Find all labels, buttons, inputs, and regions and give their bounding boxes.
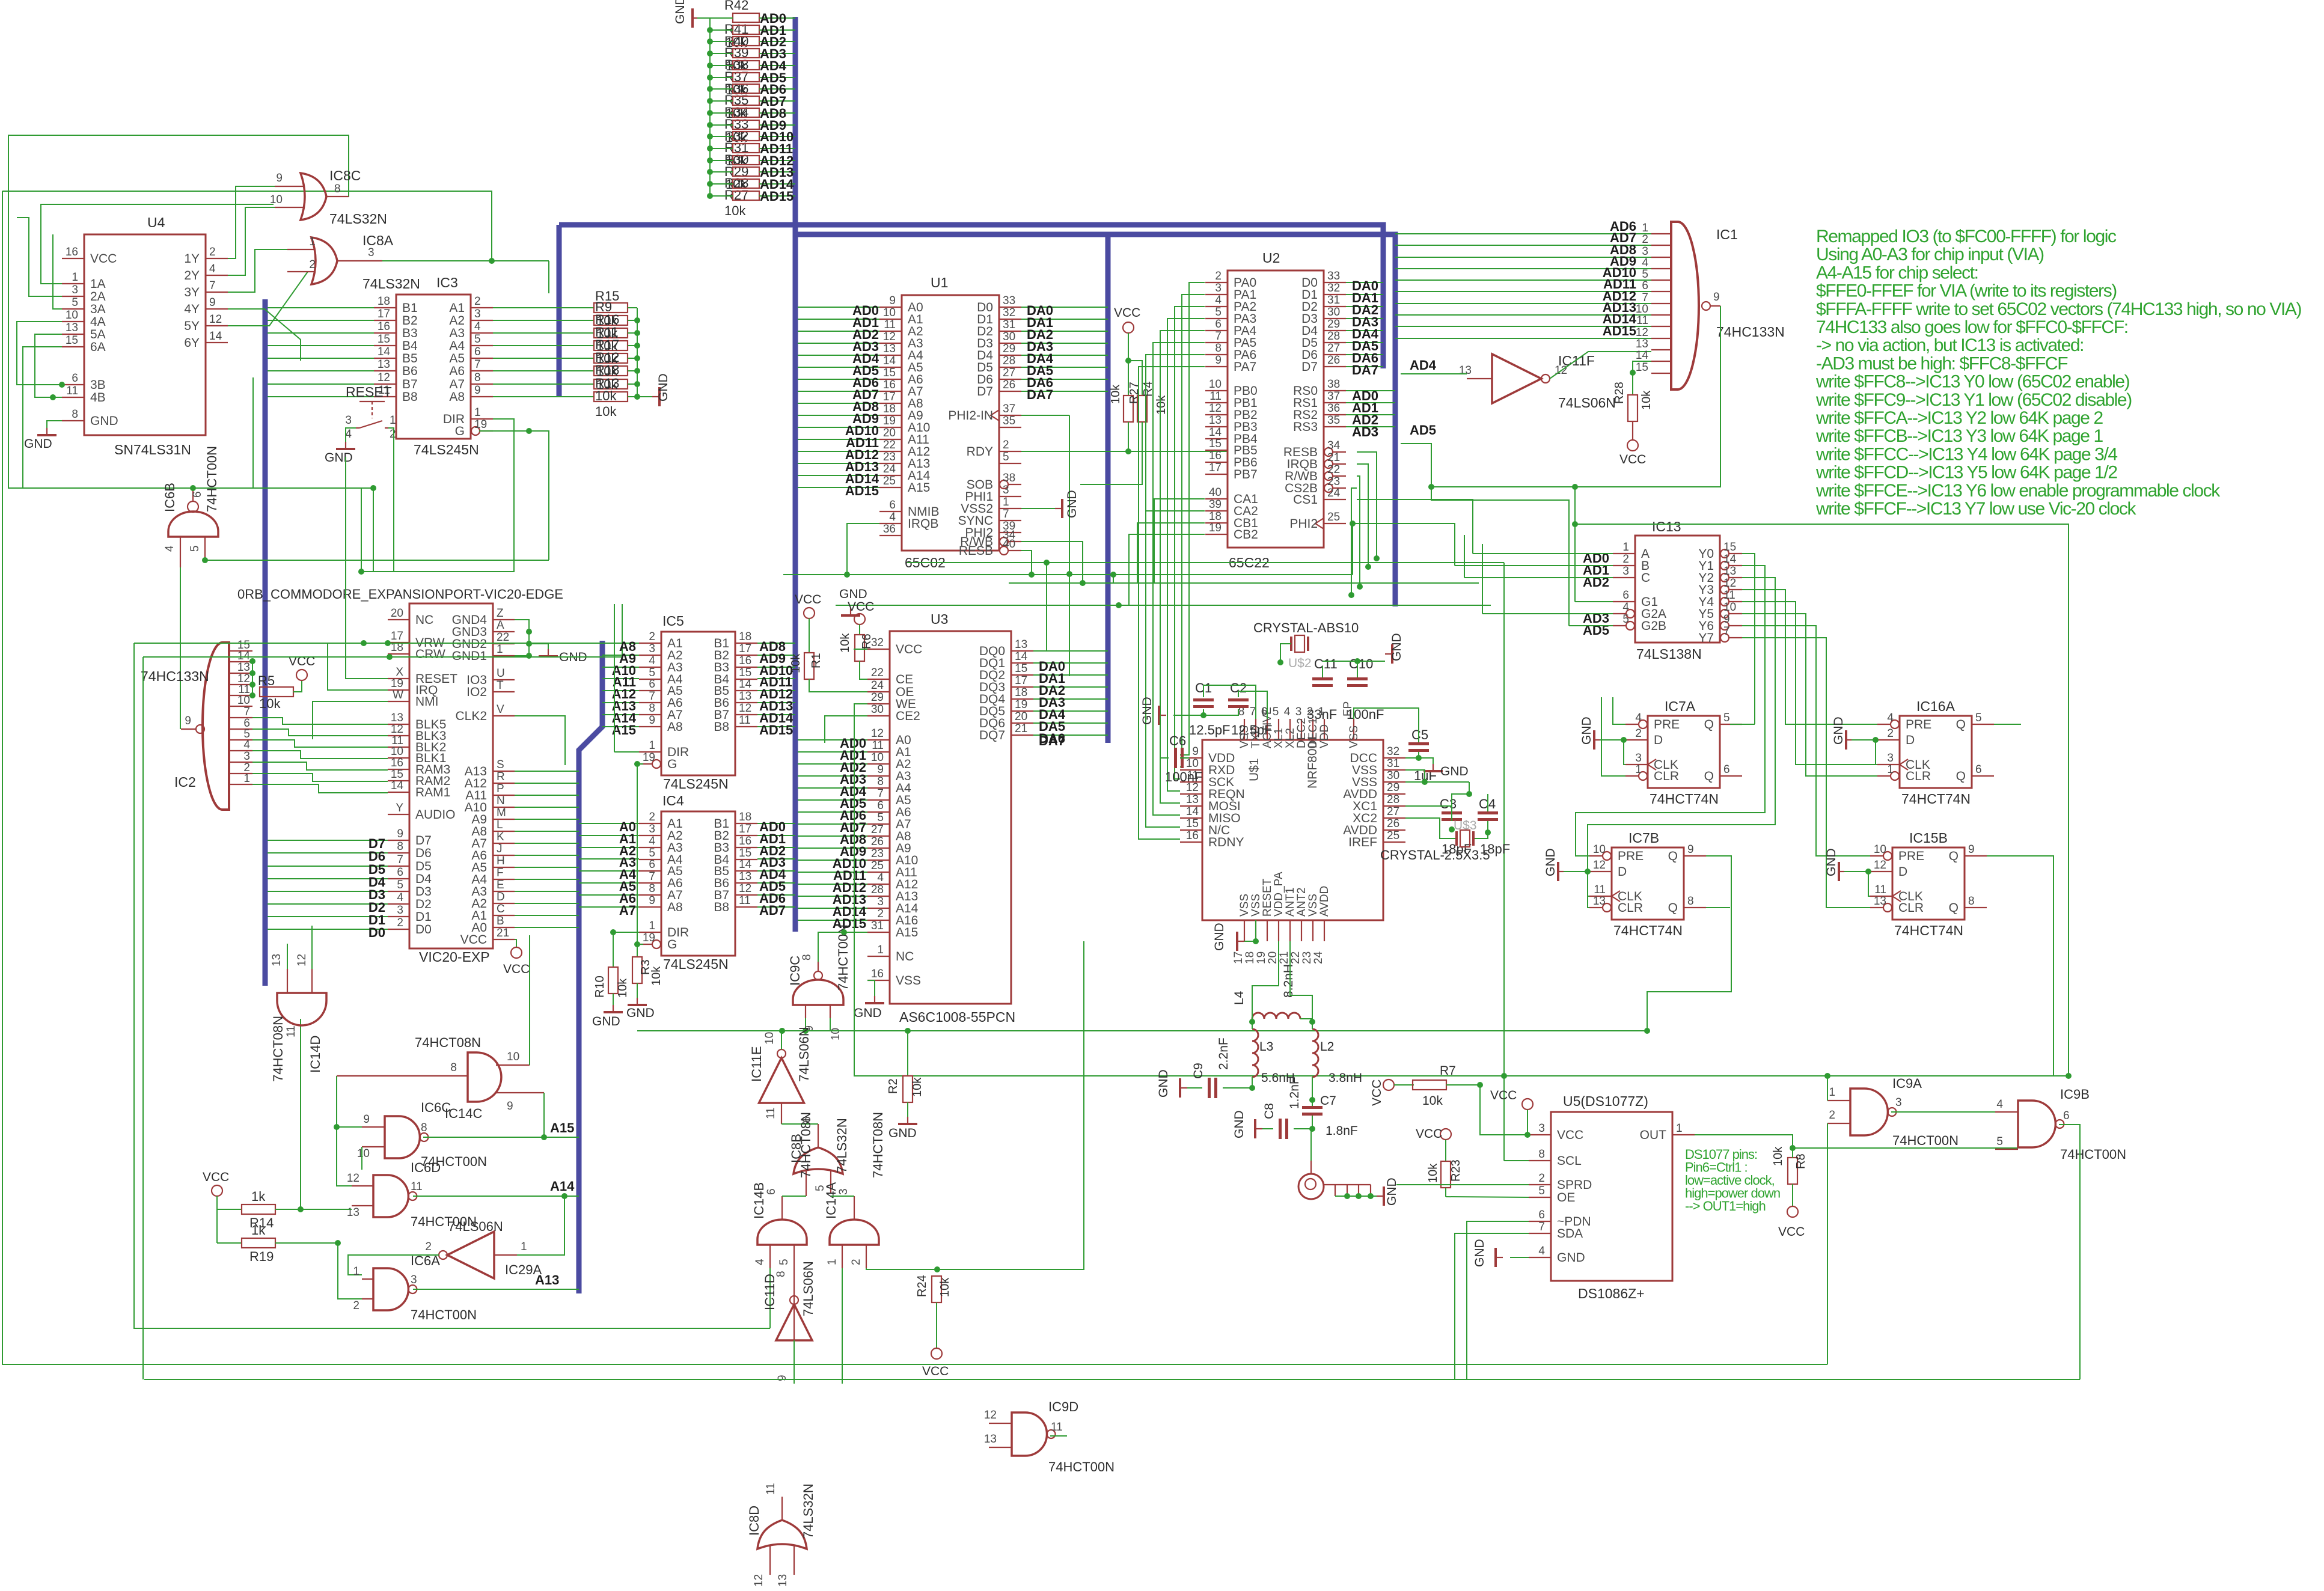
svg-text:D7: D7 <box>1301 360 1318 374</box>
resistor R14 <box>242 1205 275 1214</box>
svg-text:74LS138N: 74LS138N <box>1636 646 1702 662</box>
ground R42 <box>693 17 697 19</box>
IC IC5 <box>661 632 735 775</box>
wire antenna gnd rail <box>1335 1196 1377 1197</box>
resistor R42 row <box>733 132 759 141</box>
wire IC7B Qb stub <box>1706 907 1730 908</box>
wire bus AD to U1 <box>798 403 879 404</box>
svg-text:11: 11 <box>739 714 751 727</box>
svg-text:VCC: VCC <box>848 600 874 614</box>
svg-text:6: 6 <box>765 1188 778 1195</box>
wire AD to IC1 <box>1395 257 1651 258</box>
wire R15 right <box>628 396 637 397</box>
svg-text:3: 3 <box>877 896 884 908</box>
junction <box>844 572 850 578</box>
svg-text:VCC: VCC <box>1490 1089 1517 1102</box>
wire AD to U3 <box>798 884 867 885</box>
svg-text:17: 17 <box>883 391 896 403</box>
svg-text:IRQB: IRQB <box>908 517 938 531</box>
wire IC11F out to IC1 pin13 <box>1550 352 1651 379</box>
svg-text:22: 22 <box>871 667 884 679</box>
svg-text:AD5: AD5 <box>1410 423 1436 438</box>
wire to R14 <box>217 1209 242 1210</box>
wire IC3 A to R15 <box>493 332 594 334</box>
svg-text:VSS: VSS <box>1238 894 1251 917</box>
wire R1 to OE <box>809 679 867 692</box>
svg-text:GND: GND <box>1557 1251 1585 1265</box>
svg-text:12: 12 <box>209 313 222 326</box>
wire R23 down <box>1445 1188 1446 1197</box>
svg-text:G: G <box>667 757 677 771</box>
svg-text:18: 18 <box>883 403 896 415</box>
wire IC9D out <box>1050 1435 1067 1437</box>
junction <box>1350 521 1356 527</box>
svg-text:37: 37 <box>1327 390 1340 403</box>
svg-text:write $FFCD-->IC13 Y5 low 64K: write $FFCD-->IC13 Y5 low 64K page 1/2 <box>1815 463 2117 483</box>
wire XC1 <box>1405 806 1452 821</box>
wire R42 to bus <box>759 41 795 42</box>
svg-text:H: H <box>497 855 505 867</box>
wire bus AD to U1 <box>798 427 879 428</box>
svg-text:4: 4 <box>1996 1098 2003 1111</box>
junction <box>541 1134 547 1140</box>
svg-text:write $FFCB-->IC13 Y3 low 64K: write $FFCB-->IC13 Y3 low 64K page 1 <box>1815 426 2103 446</box>
svg-text:2: 2 <box>1003 439 1009 451</box>
svg-text:XL1: XL1 <box>1273 728 1285 748</box>
svg-text:7: 7 <box>1215 330 1222 343</box>
wire IC2 in from VIC20 <box>252 718 388 724</box>
svg-text:13: 13 <box>1015 638 1027 651</box>
svg-text:27: 27 <box>1327 342 1340 355</box>
svg-text:24: 24 <box>1327 487 1341 499</box>
junction <box>1466 791 1472 797</box>
wire bus AD to U1 <box>798 307 879 308</box>
svg-text:U3: U3 <box>931 611 948 627</box>
svg-text:SN74LS31N: SN74LS31N <box>114 442 191 457</box>
wire Y1 to IC7B PRE <box>1576 566 1765 856</box>
wire crystal right <box>1475 821 1488 838</box>
wire VCC to R27 <box>1128 333 1129 395</box>
svg-text:R2: R2 <box>887 1078 900 1094</box>
svg-text:15: 15 <box>378 333 390 346</box>
wire AD4 to IC11F <box>1401 373 1467 374</box>
wire A14 net <box>413 1196 579 1197</box>
ground <box>637 998 638 1005</box>
wire nrf gnd <box>1244 941 1256 942</box>
wire left vertical A <box>134 643 770 1328</box>
wire RESET net <box>388 428 394 572</box>
svg-text:14: 14 <box>739 858 752 871</box>
wire PHI2 right <box>1353 524 1455 566</box>
IC U2 <box>1228 270 1324 548</box>
wire AD to U3 <box>798 799 867 801</box>
svg-text:Y: Y <box>396 802 403 814</box>
svg-text:9: 9 <box>1723 613 1730 626</box>
capacitor C11 <box>1312 677 1333 680</box>
wire AD to U3 <box>798 823 867 825</box>
svg-text:3A: 3A <box>90 302 106 316</box>
wire IC4 B to bus <box>757 906 795 908</box>
wire gnd to CLK IC15B <box>1868 872 1870 896</box>
svg-text:DEC2: DEC2 <box>1295 718 1308 748</box>
wire IC14C in9 down <box>543 1093 545 1137</box>
wire D to bus <box>268 929 388 930</box>
svg-text:21: 21 <box>497 927 509 939</box>
and-gate IC14B <box>757 1220 807 1245</box>
wire R42 to bus <box>759 77 795 78</box>
svg-text:23: 23 <box>1327 475 1340 488</box>
svg-text:VCC: VCC <box>90 252 117 266</box>
junction <box>779 1028 785 1034</box>
wire U1 D to bus <box>1021 391 1108 392</box>
svg-text:7: 7 <box>243 706 250 718</box>
svg-text:27: 27 <box>1003 367 1015 379</box>
wire v to C <box>1464 535 1465 578</box>
svg-text:CLK2: CLK2 <box>455 709 487 723</box>
ground <box>1433 764 1434 771</box>
junction <box>526 629 532 635</box>
svg-text:38: 38 <box>1003 472 1015 484</box>
junction <box>1029 572 1035 578</box>
svg-text:74HCT00N: 74HCT00N <box>1892 1133 1959 1148</box>
wire joint <box>142 1379 144 1380</box>
svg-text:14: 14 <box>1209 426 1222 439</box>
wire U3 DQ to bus <box>1033 722 1108 724</box>
svg-text:A8: A8 <box>667 720 683 734</box>
junction <box>1477 1082 1483 1088</box>
wire R19 out <box>275 1242 338 1244</box>
wire A to bus <box>515 771 579 772</box>
wire IC13 G2A <box>1482 613 1613 614</box>
svg-text:write $FFC9-->IC13 Y1 low (65C: write $FFC9-->IC13 Y1 low (65C02 disable… <box>1815 390 2132 410</box>
svg-text:74HCT00N: 74HCT00N <box>411 1307 477 1322</box>
junction <box>1428 484 1434 490</box>
svg-text:Q: Q <box>1956 718 1966 731</box>
bus V5 A0-A15 <box>579 641 602 1293</box>
wire to U4 2A <box>17 218 62 296</box>
wire AD to U3 <box>798 811 867 813</box>
svg-text:B8: B8 <box>714 720 729 734</box>
svg-text:A1: A1 <box>449 301 465 315</box>
IC IC15B <box>1892 847 1965 920</box>
IC IC7B <box>1612 847 1684 920</box>
svg-text:13: 13 <box>1874 895 1886 908</box>
wire bus to IC4 <box>579 906 639 908</box>
svg-text:33nF: 33nF <box>1307 707 1337 722</box>
wire R8 top <box>1792 1148 1793 1158</box>
svg-text:B5: B5 <box>402 352 418 365</box>
svg-text:GND: GND <box>1212 923 1226 951</box>
wire C9 to L3 <box>1223 1077 1252 1088</box>
svg-text:8: 8 <box>72 408 78 421</box>
svg-text:10k: 10k <box>1155 395 1168 415</box>
capacitor C6 <box>1174 748 1177 768</box>
svg-text:write $FFCA-->IC13 Y2 low 64K: write $FFCA-->IC13 Y2 low 64K page 2 <box>1815 408 2103 428</box>
junction <box>1572 521 1578 527</box>
svg-text:R28: R28 <box>1613 382 1626 404</box>
svg-text:3: 3 <box>72 284 78 296</box>
resistor R42 row <box>733 25 759 34</box>
ground <box>874 996 875 1003</box>
ground IC15B <box>1838 862 1840 881</box>
wire R5 to VCC <box>293 681 302 692</box>
svg-text:26: 26 <box>1003 379 1015 391</box>
wire CRW net h <box>143 656 622 658</box>
svg-text:R5: R5 <box>258 673 275 688</box>
wire R/WB down <box>1021 542 1083 583</box>
wire R27 down <box>1128 422 1129 451</box>
wire R3 gnd <box>637 983 638 998</box>
wire IC13 C <box>1464 577 1613 578</box>
wire R15 right <box>628 370 637 371</box>
VCC symbol <box>212 1185 222 1196</box>
wire IC3 DIR down <box>361 419 514 572</box>
svg-text:U2: U2 <box>1262 250 1280 266</box>
wire SOB to R4 <box>1080 435 1142 484</box>
junction <box>707 122 713 128</box>
svg-text:L2: L2 <box>1320 1040 1334 1054</box>
svg-text:27: 27 <box>1387 805 1399 818</box>
svg-text:15: 15 <box>1186 817 1199 830</box>
wire bus to IC3 B <box>268 396 374 397</box>
wire IC14B in4 down <box>769 1268 771 1328</box>
junction <box>1344 1193 1350 1199</box>
svg-text:2: 2 <box>353 1299 359 1312</box>
wire RESB down <box>1021 551 1032 575</box>
svg-text:11: 11 <box>1051 1421 1063 1434</box>
wire U1 D to bus <box>1021 343 1108 344</box>
svg-text:14: 14 <box>1015 650 1028 663</box>
svg-text:3: 3 <box>1003 484 1009 496</box>
svg-text:21: 21 <box>1278 951 1291 964</box>
svg-text:24: 24 <box>1312 951 1325 964</box>
svg-text:C5: C5 <box>1411 727 1428 742</box>
wire long y1715 <box>637 1030 1647 1031</box>
svg-text:9: 9 <box>1713 291 1720 304</box>
wire IC13 G2B <box>1569 625 1613 626</box>
capacitor C8 <box>1279 1119 1282 1139</box>
svg-text:Q: Q <box>1704 718 1714 731</box>
svg-text:9: 9 <box>649 714 655 727</box>
wire bus AD to U1 <box>798 451 879 452</box>
svg-text:IC7A: IC7A <box>1665 698 1696 714</box>
svg-text:CB2: CB2 <box>1234 528 1258 542</box>
svg-text:A5: A5 <box>449 352 465 365</box>
svg-text:F: F <box>497 867 504 879</box>
svg-text:2: 2 <box>850 1259 863 1265</box>
wire v from h936 <box>1046 563 1047 651</box>
crystal U$2 CRYSTAL-ABS10 <box>1290 637 1292 651</box>
resistor R1 <box>804 653 814 679</box>
wire U1 D to bus <box>1021 319 1108 320</box>
svg-text:RESET: RESET <box>346 384 392 400</box>
svg-text:D: D <box>497 891 505 903</box>
and-gate IC14C <box>468 1052 501 1102</box>
svg-text:GND: GND <box>1473 1239 1487 1267</box>
wire U4 2Y to IC8C in10 <box>228 207 275 275</box>
svg-text:74HCT74N: 74HCT74N <box>1894 923 1963 938</box>
svg-text:GND: GND <box>673 0 687 24</box>
svg-text:32: 32 <box>1327 282 1340 295</box>
svg-text:1: 1 <box>474 406 481 419</box>
svg-text:D4: D4 <box>415 872 432 886</box>
wire R42 to bus <box>759 53 795 54</box>
wire AD to U3 <box>798 860 867 861</box>
svg-text:2: 2 <box>397 917 403 929</box>
wire C6 gnd <box>1160 715 1169 758</box>
svg-text:3: 3 <box>397 904 403 917</box>
svg-text:6: 6 <box>1538 1209 1545 1221</box>
wire IC3 A to R15 <box>493 345 594 346</box>
svg-text:D: D <box>1906 733 1915 747</box>
junction <box>634 330 640 336</box>
wire v to G2A <box>1482 544 1483 614</box>
svg-text:21: 21 <box>1327 451 1340 464</box>
svg-text:1: 1 <box>1676 1122 1683 1135</box>
wire AD to U3 <box>798 896 867 897</box>
svg-text:4A: 4A <box>90 315 106 329</box>
nand-gate IC6A <box>373 1268 408 1310</box>
svg-text:30: 30 <box>1387 769 1399 782</box>
svg-text:74LS245N: 74LS245N <box>414 442 479 457</box>
wire IC9C out to U3 A15 <box>818 932 867 962</box>
svg-text:VCC: VCC <box>795 593 821 606</box>
svg-text:8: 8 <box>1215 342 1222 355</box>
svg-text:5: 5 <box>1622 613 1629 626</box>
wire U1 D to bus <box>1021 367 1108 368</box>
wire U3 DQ to bus <box>1033 710 1108 712</box>
svg-text:4: 4 <box>397 891 403 904</box>
svg-text:DQ7: DQ7 <box>979 728 1005 742</box>
svg-text:15: 15 <box>1209 438 1222 450</box>
svg-text:GND: GND <box>1824 848 1838 876</box>
svg-text:AS6C1008-55PCN: AS6C1008-55PCN <box>899 1009 1015 1025</box>
ground <box>850 608 851 615</box>
wire bus to IC4 <box>579 835 639 836</box>
wire IC13 A <box>1473 553 1613 554</box>
svg-text:10k: 10k <box>1422 1094 1443 1108</box>
svg-text:1: 1 <box>1622 541 1629 554</box>
svg-text:1: 1 <box>1003 496 1009 508</box>
nand-gate IC6B <box>168 512 218 537</box>
svg-text:T: T <box>497 679 504 692</box>
crystal U$3 <box>1455 831 1458 846</box>
wire PHI2-IN stub <box>1021 415 1069 416</box>
svg-text:AD15: AD15 <box>759 722 793 737</box>
wire C8 to C7 <box>1294 1116 1312 1129</box>
bus V4 DA to U3 <box>1105 234 1111 743</box>
wire AD5 to IC13 G2B <box>1401 444 1569 626</box>
junction <box>249 670 255 676</box>
wire bottom y2295 <box>144 1379 2080 1380</box>
svg-text:IC11D: IC11D <box>762 1274 777 1310</box>
svg-text:13: 13 <box>739 870 751 883</box>
junction <box>1277 659 1283 665</box>
resistor R24 <box>932 1276 941 1302</box>
wire R42 to bus <box>759 160 795 161</box>
svg-text:PHI2-IN: PHI2-IN <box>948 409 993 423</box>
wire U3 DQ to bus <box>1033 734 1108 736</box>
svg-text:Q: Q <box>1949 901 1959 915</box>
svg-text:74LS245N: 74LS245N <box>663 776 729 792</box>
svg-text:B6: B6 <box>402 364 418 378</box>
svg-text:GND: GND <box>1140 697 1154 725</box>
resistor R42 row <box>733 120 759 129</box>
wire AD to U3 <box>798 835 867 837</box>
svg-text:D3: D3 <box>415 885 432 899</box>
ground <box>907 1117 908 1124</box>
svg-text:4: 4 <box>649 655 655 667</box>
junction <box>707 181 713 187</box>
wire R4 down <box>1142 422 1143 435</box>
svg-text:5: 5 <box>474 333 481 346</box>
wire VCC to R1 <box>809 618 810 653</box>
wire IC14C out up <box>529 935 530 1065</box>
wire bus to IC5 <box>602 702 639 703</box>
svg-text:SDA: SDA <box>1557 1227 1583 1241</box>
svg-text:7: 7 <box>397 854 403 866</box>
svg-text:GND: GND <box>626 1006 655 1020</box>
svg-text:12.5pF: 12.5pF <box>1231 722 1273 737</box>
svg-text:8: 8 <box>474 371 481 384</box>
IC U4 <box>84 234 206 435</box>
junction <box>1309 1126 1315 1132</box>
svg-text:10k: 10k <box>595 388 617 403</box>
wire IC9A in2 down <box>1827 1123 1828 1364</box>
wire VCC pin21 <box>515 939 516 947</box>
wire U2 PA <box>1139 367 1205 839</box>
svg-text:11: 11 <box>884 319 896 331</box>
wire AD to U3 <box>798 787 867 789</box>
wire to gnd <box>529 644 548 649</box>
wire AD to U3 <box>798 908 867 909</box>
junction <box>1249 1085 1255 1091</box>
svg-text:IREF: IREF <box>1348 835 1377 849</box>
svg-text:AD5: AD5 <box>1583 623 1609 638</box>
svg-text:28: 28 <box>871 884 884 896</box>
wire to R19 <box>217 1242 242 1244</box>
resistor R42 row <box>733 37 759 46</box>
svg-text:10k: 10k <box>724 203 746 218</box>
wire DIR to R10 <box>613 932 614 967</box>
svg-text:IC2: IC2 <box>174 774 196 790</box>
wire Y6 to IC15B PRE <box>1742 626 1870 856</box>
svg-text:74LS32N: 74LS32N <box>329 211 387 227</box>
svg-text:SCL: SCL <box>1557 1154 1582 1168</box>
svg-text:6: 6 <box>397 866 403 879</box>
svg-text:10: 10 <box>391 745 403 758</box>
wire AD to IC1 <box>1395 233 1651 234</box>
wire bus AD to U1 <box>798 367 879 368</box>
wire RDY <box>1021 451 1128 452</box>
wire Y3 to IC16A PRE <box>1742 590 1877 724</box>
svg-text:19: 19 <box>883 415 896 427</box>
svg-text:A14: A14 <box>550 1179 575 1194</box>
junction <box>1865 869 1871 875</box>
wire AD to IC1 <box>1395 314 1651 316</box>
svg-text:A15: A15 <box>612 722 636 737</box>
svg-text:6: 6 <box>649 678 655 691</box>
svg-text:GND: GND <box>854 1006 882 1020</box>
junction <box>1110 572 1116 578</box>
svg-text:7: 7 <box>1723 625 1730 638</box>
svg-text:13: 13 <box>1186 793 1199 806</box>
svg-text:U: U <box>497 667 505 680</box>
svg-text:7: 7 <box>649 690 655 703</box>
wire IC11D in down <box>794 1340 795 1384</box>
junction <box>707 98 713 104</box>
svg-text:A15: A15 <box>896 926 918 939</box>
